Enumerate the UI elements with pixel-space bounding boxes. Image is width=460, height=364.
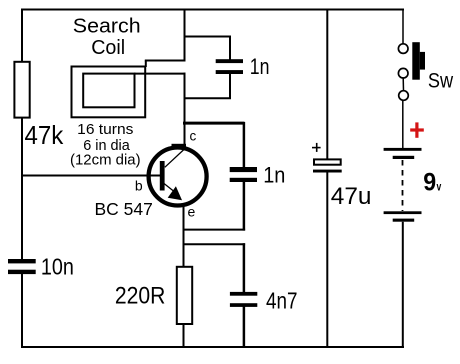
wire top supply rail bbox=[21, 9, 404, 11]
switch Sw contact circles bbox=[398, 44, 408, 100]
wire bottom ground rail bbox=[21, 346, 404, 348]
svg-text:16 turns: 16 turns bbox=[77, 121, 133, 138]
battery B1 top cell plates bbox=[384, 148, 422, 159]
capacitor C2 1n bbox=[230, 162, 286, 187]
svg-text:47k: 47k bbox=[25, 120, 65, 150]
resistor R1 47k bbox=[14, 62, 64, 150]
wire branch to C1 top plate bbox=[184, 36, 232, 60]
svg-text:(12cm dia): (12cm dia) bbox=[70, 151, 141, 168]
svg-text:e: e bbox=[188, 204, 196, 220]
svg-text:Coil: Coil bbox=[91, 37, 125, 59]
svg-text:Search: Search bbox=[73, 16, 141, 38]
wire battery negative to ground rail bbox=[402, 222, 404, 348]
capacitor C5 47u electrolytic bbox=[312, 143, 372, 210]
label Sw bbox=[428, 69, 454, 92]
label 9v (red) bbox=[423, 168, 442, 196]
transistor Q1 base bar bbox=[160, 161, 165, 191]
wire 220R bottom to ground rail bbox=[183, 324, 185, 348]
wire collector node to C2 top bbox=[183, 122, 245, 168]
svg-text:1n: 1n bbox=[250, 54, 270, 79]
capacitor C1 1n bbox=[216, 54, 270, 79]
wire left rail upper (top rail to 47k) bbox=[21, 9, 23, 63]
svg-text:10n: 10n bbox=[41, 253, 74, 279]
svg-text:v: v bbox=[437, 181, 442, 193]
svg-text:BC 547: BC 547 bbox=[95, 199, 153, 219]
wire C2 bottom plate to emitter node bbox=[183, 182, 246, 231]
wire coil outer terminal to mid bus bbox=[145, 61, 186, 68]
wire collector bus (coil inner to transistor collector) bbox=[184, 73, 186, 147]
capacitor C3 4n7 bbox=[230, 288, 298, 314]
wire emitter node to 4n7 bbox=[183, 243, 246, 292]
transistor Q1 collector stroke bbox=[165, 144, 186, 168]
svg-text:9: 9 bbox=[423, 168, 436, 196]
label coil winding details bbox=[70, 121, 141, 168]
wire base wire (left rail to transistor base) bbox=[21, 175, 161, 177]
svg-text:220R: 220R bbox=[115, 283, 165, 310]
wire 47u branch upper (top rail to C5) bbox=[326, 9, 328, 160]
wire coil inner terminal to collector bus bbox=[134, 73, 186, 75]
resistor R2 220R bbox=[115, 267, 192, 324]
switch Sw push button actuator bbox=[412, 42, 425, 79]
svg-text:Sw: Sw bbox=[428, 69, 454, 92]
label transistor pins c b e bbox=[135, 128, 197, 219]
svg-text:c: c bbox=[190, 128, 197, 143]
svg-text:b: b bbox=[135, 178, 143, 194]
svg-text:4n7: 4n7 bbox=[266, 288, 298, 314]
label Search Coil bbox=[73, 16, 141, 60]
wire 47u bottom to ground rail bbox=[326, 173, 328, 349]
transistor Q1 BC547 body bbox=[149, 148, 207, 206]
label BC 547 bbox=[95, 199, 153, 219]
battery B1 bottom cell plates bbox=[384, 211, 422, 221]
capacitor C4 10n bbox=[8, 253, 74, 279]
wire 4n7 bottom to ground rail bbox=[243, 307, 246, 349]
wire emitter down to 220R bbox=[183, 205, 185, 268]
wire switch branch (top rail down to switch) bbox=[402, 9, 404, 44]
wire mid bus upper segment (top rail down) bbox=[184, 9, 186, 62]
battery B1 positive plus sign (red) bbox=[410, 122, 424, 137]
wire left rail middle (47k to 10n) bbox=[21, 117, 23, 260]
svg-text:1n: 1n bbox=[263, 162, 285, 187]
inductor L1 search coil inner loop bbox=[83, 74, 134, 108]
wire C1 bottom plate back to collector bus bbox=[184, 74, 232, 99]
wire switch to battery bbox=[402, 100, 404, 148]
svg-text:47u: 47u bbox=[331, 183, 372, 210]
battery B1 dashed link bbox=[402, 160, 404, 211]
inductor L1 search coil outer loop bbox=[72, 67, 146, 118]
wire left rail lower (10n to bottom rail) bbox=[21, 274, 23, 347]
transistor Q1 emitter stroke with arrow bbox=[164, 184, 182, 201]
